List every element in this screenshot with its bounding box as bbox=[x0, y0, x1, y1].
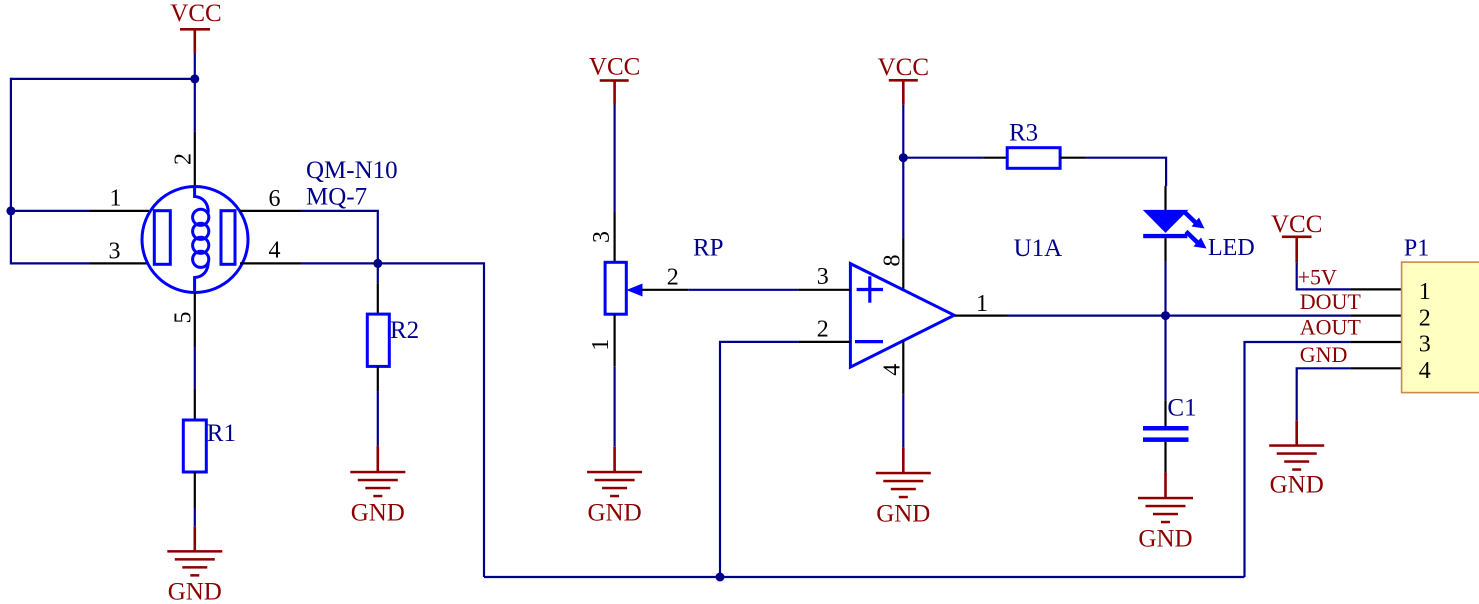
potentiometer RP pin 2 bbox=[642, 289, 689, 291]
svg-text:1: 1 bbox=[976, 291, 988, 317]
capacitor C1 top pin bbox=[1164, 400, 1166, 426]
wire node D to R3 bbox=[903, 157, 983, 159]
svg-text:R1: R1 bbox=[207, 420, 236, 447]
svg-text:RP: RP bbox=[693, 235, 724, 262]
op-amp pin 1 output bbox=[955, 315, 1008, 317]
wire op-amp output to node E bbox=[1008, 315, 1166, 317]
sensor pin 6 bbox=[240, 210, 301, 212]
sensor heater coil bbox=[193, 187, 209, 293]
sensor pin 4 bbox=[240, 262, 301, 264]
svg-text:8: 8 bbox=[880, 255, 906, 267]
op-amp U1A bbox=[850, 264, 954, 368]
svg-text:3: 3 bbox=[817, 264, 829, 290]
sensor pin 3 bbox=[90, 262, 149, 264]
resistor R1 top pin bbox=[194, 389, 196, 420]
node D junction bbox=[899, 153, 908, 162]
op-amp pin 3 bbox=[798, 289, 850, 291]
svg-text:2: 2 bbox=[817, 317, 829, 343]
svg-text:2: 2 bbox=[1419, 305, 1431, 331]
svg-text:3: 3 bbox=[109, 238, 121, 264]
svg-text:P1: P1 bbox=[1404, 235, 1429, 261]
op-amp pin 2 bbox=[798, 341, 850, 343]
wire VCC node to sensor pin 2 bbox=[194, 79, 196, 132]
power VCC (RP supply) bbox=[589, 54, 640, 105]
svg-text:MQ-7: MQ-7 bbox=[306, 184, 367, 211]
connector P1 body bbox=[1402, 262, 1479, 393]
svg-text:2: 2 bbox=[171, 153, 197, 165]
node E junction bbox=[1161, 311, 1170, 320]
svg-text:GND: GND bbox=[1300, 342, 1348, 367]
svg-text:R2: R2 bbox=[390, 317, 419, 344]
wire VCC to node A bbox=[194, 53, 196, 79]
svg-text:4: 4 bbox=[1419, 358, 1431, 384]
wire VCC to RP pin 3 bbox=[613, 105, 615, 213]
svg-text:GND: GND bbox=[876, 501, 930, 528]
svg-text:C1: C1 bbox=[1167, 395, 1196, 422]
resistor R1 bbox=[183, 420, 206, 472]
node F junction bbox=[716, 573, 725, 582]
svg-text:3: 3 bbox=[589, 231, 615, 243]
svg-text:R3: R3 bbox=[1009, 120, 1038, 147]
wire P1 pin 4 to GND bbox=[1297, 368, 1351, 420]
potentiometer RP wiper arrow bbox=[626, 284, 642, 297]
LED cathode pin bbox=[1164, 238, 1166, 262]
wire node E to DOUT pin bbox=[1166, 315, 1351, 317]
svg-text:GND: GND bbox=[1138, 526, 1192, 553]
resistor R2 bottom pin bbox=[377, 366, 379, 391]
node B junction bbox=[6, 206, 15, 215]
sensor left electrode bbox=[154, 211, 170, 265]
wire pin6 to corner bbox=[301, 211, 378, 263]
power VCC (connector supply) bbox=[1271, 211, 1322, 263]
ground (below R1) bbox=[167, 526, 222, 604]
svg-text:1: 1 bbox=[1419, 279, 1431, 305]
sensor pin 5 bbox=[194, 293, 196, 348]
wire R2 to GND bbox=[377, 391, 379, 446]
resistor R2 top pin bbox=[377, 283, 379, 314]
capacitor C1 bbox=[1143, 426, 1189, 442]
resistor R1 bottom pin bbox=[194, 472, 196, 508]
wire to sensor pin 3 bbox=[11, 262, 90, 264]
svg-text:2: 2 bbox=[667, 264, 679, 290]
connector P1 pin 3 bbox=[1350, 341, 1402, 343]
wire node C to right corner bbox=[378, 263, 484, 577]
svg-text:QM-N10: QM-N10 bbox=[306, 157, 398, 184]
svg-text:+5V: +5V bbox=[1298, 265, 1337, 290]
op-amp pin 4 bbox=[902, 341, 904, 395]
resistor R3 right pin bbox=[1060, 157, 1086, 159]
wire op-amp pin 4 to GND bbox=[902, 394, 904, 447]
sensor pin 1 bbox=[90, 210, 149, 212]
node A junction bbox=[190, 74, 199, 83]
diode LED bbox=[1143, 210, 1207, 249]
ground (below C1) bbox=[1138, 473, 1193, 553]
svg-text:GND: GND bbox=[351, 500, 405, 527]
potentiometer RP pin 3 bbox=[613, 212, 615, 262]
svg-text:5: 5 bbox=[171, 312, 197, 324]
wire left vertical bbox=[10, 78, 12, 265]
connector P1 pin 4 bbox=[1350, 367, 1402, 369]
wire node E to C1 bbox=[1164, 316, 1166, 401]
svg-text:AOUT: AOUT bbox=[1300, 315, 1362, 340]
resistor R3 bbox=[1007, 148, 1060, 169]
resistor R3 left pin bbox=[983, 157, 1007, 159]
wire VCC to node D bbox=[902, 105, 904, 158]
svg-text:4: 4 bbox=[880, 364, 906, 376]
resistor R2 bbox=[367, 314, 389, 366]
wire to sensor pin 1 bbox=[11, 210, 90, 212]
op-amp pin 8 bbox=[902, 238, 904, 290]
wire node D to op-amp pin 8 bbox=[902, 158, 904, 238]
wire AOUT from bottom bbox=[1245, 342, 1351, 577]
capacitor C1 bottom pin bbox=[1164, 442, 1166, 473]
svg-text:VCC: VCC bbox=[589, 54, 640, 81]
wire R3 to LED bbox=[1086, 158, 1166, 186]
svg-text:VCC: VCC bbox=[170, 0, 221, 27]
wire top horizontal bbox=[11, 78, 195, 80]
ground (below op-amp) bbox=[876, 447, 931, 527]
svg-text:U1A: U1A bbox=[1014, 235, 1063, 262]
wire VCC to P1 pin 1 bbox=[1297, 263, 1351, 290]
connector P1 pin 1 bbox=[1350, 288, 1402, 290]
sensor pin 2 bbox=[194, 132, 196, 187]
svg-text:4: 4 bbox=[269, 238, 281, 264]
LED anode pin bbox=[1164, 186, 1166, 211]
sensor right electrode bbox=[221, 211, 235, 265]
potentiometer RP bbox=[605, 262, 626, 314]
wire to op-amp pin 2 bbox=[720, 342, 798, 577]
wire RP wiper to op-amp pin 3 bbox=[688, 289, 798, 291]
svg-text:VCC: VCC bbox=[1271, 211, 1322, 238]
potentiometer RP pin 1 bbox=[613, 314, 615, 366]
power VCC (sensor supply) bbox=[170, 0, 221, 53]
svg-text:DOUT: DOUT bbox=[1300, 289, 1362, 314]
wire LED to node E bbox=[1164, 262, 1166, 316]
svg-text:VCC: VCC bbox=[878, 54, 929, 81]
connector P1 pin 2 bbox=[1350, 315, 1402, 317]
wire RP to GND bbox=[613, 366, 615, 447]
node C junction bbox=[373, 259, 382, 268]
gas sensor MQ-7 body circle bbox=[142, 187, 248, 293]
ground (below R2) bbox=[350, 446, 405, 527]
ground (below RP) bbox=[587, 447, 642, 527]
svg-text:3: 3 bbox=[1419, 332, 1431, 358]
svg-text:LED: LED bbox=[1208, 235, 1255, 261]
svg-text:1: 1 bbox=[110, 186, 122, 212]
svg-text:1: 1 bbox=[588, 339, 614, 351]
wire pin5 to R1 bbox=[194, 347, 196, 389]
svg-text:GND: GND bbox=[1270, 472, 1324, 499]
wire pin4 to node C bbox=[301, 262, 378, 264]
wire node C to R2 bbox=[377, 263, 379, 283]
ground (below P1) bbox=[1269, 420, 1324, 498]
power VCC (op-amp supply) bbox=[878, 54, 929, 105]
wire bottom bus bbox=[484, 576, 1245, 578]
wire R1 to GND bbox=[194, 508, 196, 526]
svg-text:GND: GND bbox=[168, 579, 222, 604]
svg-text:6: 6 bbox=[269, 186, 281, 212]
svg-text:GND: GND bbox=[588, 500, 642, 527]
